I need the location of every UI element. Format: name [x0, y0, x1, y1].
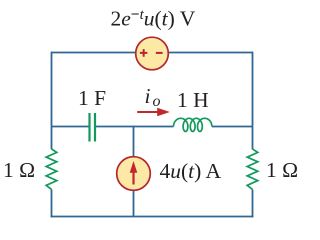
wire left vertical upper [51, 52, 53, 150]
wire current-source branch upper [133, 126, 135, 158]
wire current-source branch lower [133, 190, 135, 217]
voltage source minus sign [156, 52, 163, 54]
wire middle capacitor to inductor [96, 126, 174, 128]
wire right vertical upper [252, 52, 254, 150]
resistor R left 1ohm zigzag [46, 149, 57, 189]
wire left vertical lower [51, 190, 53, 218]
voltage source V1 circle [136, 37, 169, 70]
current source I1 circle [117, 157, 151, 191]
capacitor C 1F plates [90, 113, 96, 142]
current io arrow [137, 111, 158, 113]
wire top-right segment [168, 52, 252, 54]
label current io [145, 86, 161, 110]
label inductor 1 H [177, 90, 209, 112]
voltage source plus sign [140, 49, 148, 57]
current source arrow [132, 172, 134, 185]
label resistor right 1 ohm [266, 160, 298, 182]
wire top-left segment [52, 52, 136, 54]
wire middle left of capacitor [52, 126, 90, 128]
label capacitor 1 F [78, 88, 106, 110]
resistor R right 1ohm zigzag [247, 149, 258, 189]
inductor L 1H coil [174, 118, 212, 131]
wire middle inductor to right [212, 126, 253, 128]
label resistor left 1 ohm [3, 160, 35, 182]
label source value 2e^-t u(t) V [111, 7, 196, 30]
wire right vertical lower [252, 190, 254, 218]
label current source 4u(t) A [160, 161, 222, 183]
wire bottom [51, 216, 254, 218]
